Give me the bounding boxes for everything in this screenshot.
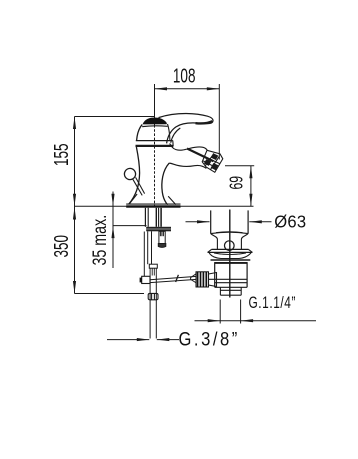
dim 108 line <box>155 88 220 90</box>
aerator dark cells <box>211 153 219 160</box>
upper hose lines <box>147 231 149 264</box>
drain cone <box>209 273 217 287</box>
G114 dim line <box>195 320 317 322</box>
drain flange cone <box>212 248 249 250</box>
arrow up at y116.5 <box>73 117 76 130</box>
ring right edge <box>172 141 174 147</box>
arrow down at deck (35) <box>111 194 114 207</box>
stud below nut <box>158 231 166 247</box>
G38 left line arrow <box>107 339 149 341</box>
dim 108 right arrow <box>207 87 220 90</box>
G114 extension line right <box>240 300 242 324</box>
drain band <box>211 259 251 261</box>
svg-text:155: 155 <box>49 143 73 166</box>
drain rod lines across body <box>209 278 247 280</box>
69 arrow down <box>249 194 252 207</box>
escutcheon left side <box>129 194 137 204</box>
spout underside & pedestal right curve <box>169 163 206 168</box>
pipe nut <box>148 293 158 299</box>
arrow up at 35 lower line <box>111 226 114 239</box>
arrow down at deck (155 end) <box>73 194 76 207</box>
svg-text:G.3/8”: G.3/8” <box>179 328 240 350</box>
extension line left / faucet centerline <box>154 84 156 125</box>
drain plug dish curves <box>211 232 248 233</box>
dim 35 vertical line <box>112 192 114 269</box>
dim 155 text (rotated) <box>49 143 73 166</box>
escutcheon right side <box>168 196 176 204</box>
drain tail <box>220 287 241 295</box>
dim 35 max. text (rotated) <box>89 215 110 266</box>
svg-text:Ø63: Ø63 <box>274 212 306 231</box>
below-deck tubes <box>145 208 161 227</box>
body left edge lower <box>129 147 140 204</box>
G114 arrow to right edge <box>241 319 254 322</box>
69 arrow up <box>249 166 252 179</box>
lower hose/pipe <box>149 276 151 339</box>
body left edge upper <box>137 125 143 141</box>
drain knurled nut <box>196 272 209 287</box>
d63 right leader with arrow <box>249 221 271 223</box>
popup knob stem <box>133 179 142 195</box>
dim 350 text (rotated) <box>49 235 73 258</box>
G114 extension line left <box>219 300 221 324</box>
mounting nut dark band <box>146 227 171 232</box>
69 top extension line <box>225 165 254 167</box>
svg-text:69: 69 <box>227 176 247 190</box>
faucet dome cap (dark) <box>143 118 167 125</box>
dim G.1.1/4 text <box>249 294 296 312</box>
dim 108 text <box>173 64 196 88</box>
G114 arrow to left edge <box>208 319 221 322</box>
rod clamp fitting <box>142 276 150 283</box>
hose thread hatch <box>150 268 156 275</box>
base plate dark bottom <box>126 205 180 207</box>
ring upper line <box>136 140 173 142</box>
drain body bottom <box>215 286 247 288</box>
svg-text:350: 350 <box>49 235 73 258</box>
drain body <box>214 262 216 287</box>
popup knob circle <box>124 168 135 179</box>
drain centerline <box>229 210 231 298</box>
dim 69 text (rotated) <box>227 176 247 190</box>
35 lower extension line <box>113 225 147 227</box>
lever tip underside thick <box>196 121 213 123</box>
bottom extension line of 350 <box>75 293 145 295</box>
dim 108 left arrow <box>155 87 168 90</box>
spout end face bold diagonal <box>187 149 214 162</box>
body right edge above ring <box>168 124 170 141</box>
faucet lever <box>159 114 214 144</box>
rod cone at drain <box>191 274 197 283</box>
popup rod <box>150 276 196 279</box>
deck line <box>75 205 254 207</box>
drain neck <box>211 234 218 249</box>
svg-text:35 max.: 35 max. <box>89 215 110 266</box>
drain cushion lens <box>209 253 251 259</box>
spout top edge <box>170 144 208 151</box>
svg-text:G.1.1/4”: G.1.1/4” <box>249 294 296 312</box>
rod break tick <box>176 275 179 282</box>
hose collar <box>149 264 157 268</box>
drain top cylinder <box>211 210 248 233</box>
dim diameter 63 text <box>274 212 306 231</box>
d63 left leader with arrow <box>186 221 210 223</box>
base plate top line <box>126 203 180 205</box>
overflow circle <box>225 241 235 251</box>
lever inner neck line <box>171 128 181 143</box>
dim 155/350 vertical line <box>74 117 76 294</box>
extension line right of 108 <box>218 84 220 160</box>
dim G.3/8 text <box>179 328 240 350</box>
top extension line at faucet top <box>75 116 156 118</box>
lift rod <box>143 232 145 277</box>
arrow up below deck (350 start) <box>73 207 76 220</box>
G38 right line arrow <box>157 339 179 341</box>
ring lower line (bold) <box>136 145 174 147</box>
arrow down at 350 bottom <box>73 281 76 294</box>
69 vertical dim line <box>250 166 252 207</box>
aerator block <box>202 150 223 172</box>
svg-text:108: 108 <box>173 64 196 88</box>
